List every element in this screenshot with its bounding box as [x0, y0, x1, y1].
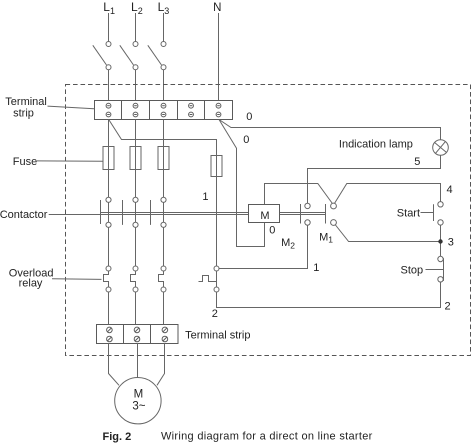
aux contact M2 bar — [300, 204, 302, 224]
motor M 3ph — [115, 378, 161, 424]
isolator L1 top contact — [106, 42, 111, 47]
fuse L1 — [103, 147, 114, 198]
svg-text:Terminal strip: Terminal strip — [185, 330, 250, 342]
wire L1 contact to overload — [108, 200, 110, 266]
overload relay heater L2 — [131, 271, 136, 287]
overload relay circles — [106, 266, 219, 292]
isolator L2 top contact — [133, 42, 138, 47]
enclosure dashed border — [66, 85, 471, 356]
overload relay trip contact — [199, 271, 217, 287]
svg-text:1: 1 — [202, 191, 208, 203]
svg-text:5: 5 — [414, 156, 420, 168]
junction node 3 — [438, 239, 442, 243]
wire node 0 strip to coil bottom — [219, 120, 265, 247]
isolator L2 bottom contact — [133, 65, 138, 70]
leader line contactor — [49, 214, 101, 216]
overload relay heater L3 — [159, 271, 164, 287]
svg-text:Indication lamp: Indication lamp — [339, 139, 413, 151]
fuse L2 — [130, 147, 141, 198]
wire L2 contact to overload — [135, 200, 137, 266]
svg-text:1: 1 — [313, 262, 319, 274]
wire motor lead 1 — [109, 344, 120, 386]
svg-text:N: N — [213, 2, 221, 14]
svg-text:Fig. 2: Fig. 2 — [103, 431, 132, 443]
wire node 4 coil top to M1 and start — [265, 184, 334, 206]
svg-text:Wiring diagram for a direct on: Wiring diagram for a direct on line star… — [161, 431, 373, 443]
aux contact M1 terminals — [331, 203, 337, 209]
svg-text:M: M — [134, 389, 144, 401]
svg-text:4: 4 — [447, 184, 453, 196]
wire L3 switch to terminal strip — [163, 70, 165, 106]
isolator L3 top contact — [161, 42, 166, 47]
wire L3 incoming — [163, 13, 165, 42]
pushbutton circles — [438, 202, 443, 282]
terminal strip lower box — [97, 325, 179, 344]
wire motor lead 3 — [157, 344, 165, 386]
terminal strip lower screws — [107, 327, 168, 342]
isolator L3 bottom contact — [161, 65, 166, 70]
contactor linkage double line left — [101, 212, 249, 214]
wire L2 incoming — [135, 13, 137, 42]
wire L2 switch to terminal strip — [135, 70, 137, 106]
wire L3 overload to lower strip — [163, 292, 165, 330]
wire start bottom to stop top — [440, 222, 442, 256]
wire control tap from L1 to fuse F4 — [109, 120, 217, 156]
isolator switch L1 blade — [93, 45, 107, 65]
svg-text:2: 2 — [212, 308, 218, 320]
contactor bar L2 — [122, 200, 124, 225]
wire motor lead 2 — [137, 344, 139, 378]
svg-text:Start: Start — [397, 208, 420, 220]
fuse F4 control — [211, 156, 222, 267]
isolator switch L3 blade — [148, 45, 162, 65]
wire L3 strip to fuse — [163, 120, 165, 147]
overload relay heater L1 — [104, 271, 109, 287]
svg-text:0: 0 — [243, 134, 249, 146]
wire L1 switch to terminal strip — [108, 70, 110, 106]
wire node 3 M1 bottom to junction — [334, 223, 441, 242]
wire L1 overload to lower strip — [108, 292, 110, 330]
contactor bar L1 — [100, 200, 102, 224]
svg-text:3: 3 — [448, 237, 454, 249]
leader line overload relay — [52, 278, 102, 281]
svg-text:strip: strip — [13, 107, 34, 119]
aux contact M1 bar — [325, 204, 327, 224]
contactor coil M box — [249, 205, 280, 223]
leader line fuse — [37, 160, 103, 162]
svg-text:Contactor: Contactor — [0, 209, 48, 221]
wire node 2 stop bottom to overload — [217, 282, 441, 308]
wire L2 strip to fuse — [135, 120, 137, 147]
wire L1 incoming — [108, 13, 110, 42]
svg-text:0: 0 — [246, 111, 252, 123]
start button — [421, 204, 434, 221]
isolator switch L2 blade — [120, 45, 134, 65]
svg-text:Terminal: Terminal — [5, 96, 47, 108]
wire node 0 strip to lamp — [219, 120, 441, 140]
wire L2 overload to lower strip — [135, 292, 137, 330]
svg-text:Stop: Stop — [401, 264, 424, 276]
wire L1 strip to fuse — [108, 120, 110, 147]
terminal strip upper box — [95, 101, 233, 120]
wire L3 contact to overload — [163, 200, 165, 266]
isolator L1 bottom contact — [106, 65, 111, 70]
contactor linkage double line right — [280, 212, 326, 214]
wire node 5 M2 top to lamp — [308, 155, 441, 203]
svg-text:Fuse: Fuse — [13, 156, 37, 168]
contactor circles — [106, 197, 337, 227]
terminal strip upper screws — [106, 103, 221, 117]
svg-text:M: M — [260, 210, 269, 222]
contactor main contacts — [101, 200, 326, 266]
aux contact M2 terminals — [305, 203, 310, 208]
svg-text:2: 2 — [445, 300, 451, 312]
wire N incoming — [218, 13, 220, 106]
stop button — [426, 258, 444, 281]
svg-text:0: 0 — [269, 224, 275, 236]
svg-text:3~: 3~ — [132, 401, 145, 413]
wire node 1 M2 bottom to overload contact — [219, 224, 308, 269]
leader line terminal strip upper — [48, 106, 95, 109]
fuse L3 — [158, 147, 169, 198]
contactor bar L3 — [150, 200, 152, 225]
svg-text:relay: relay — [19, 277, 43, 289]
indication lamp — [433, 140, 449, 156]
